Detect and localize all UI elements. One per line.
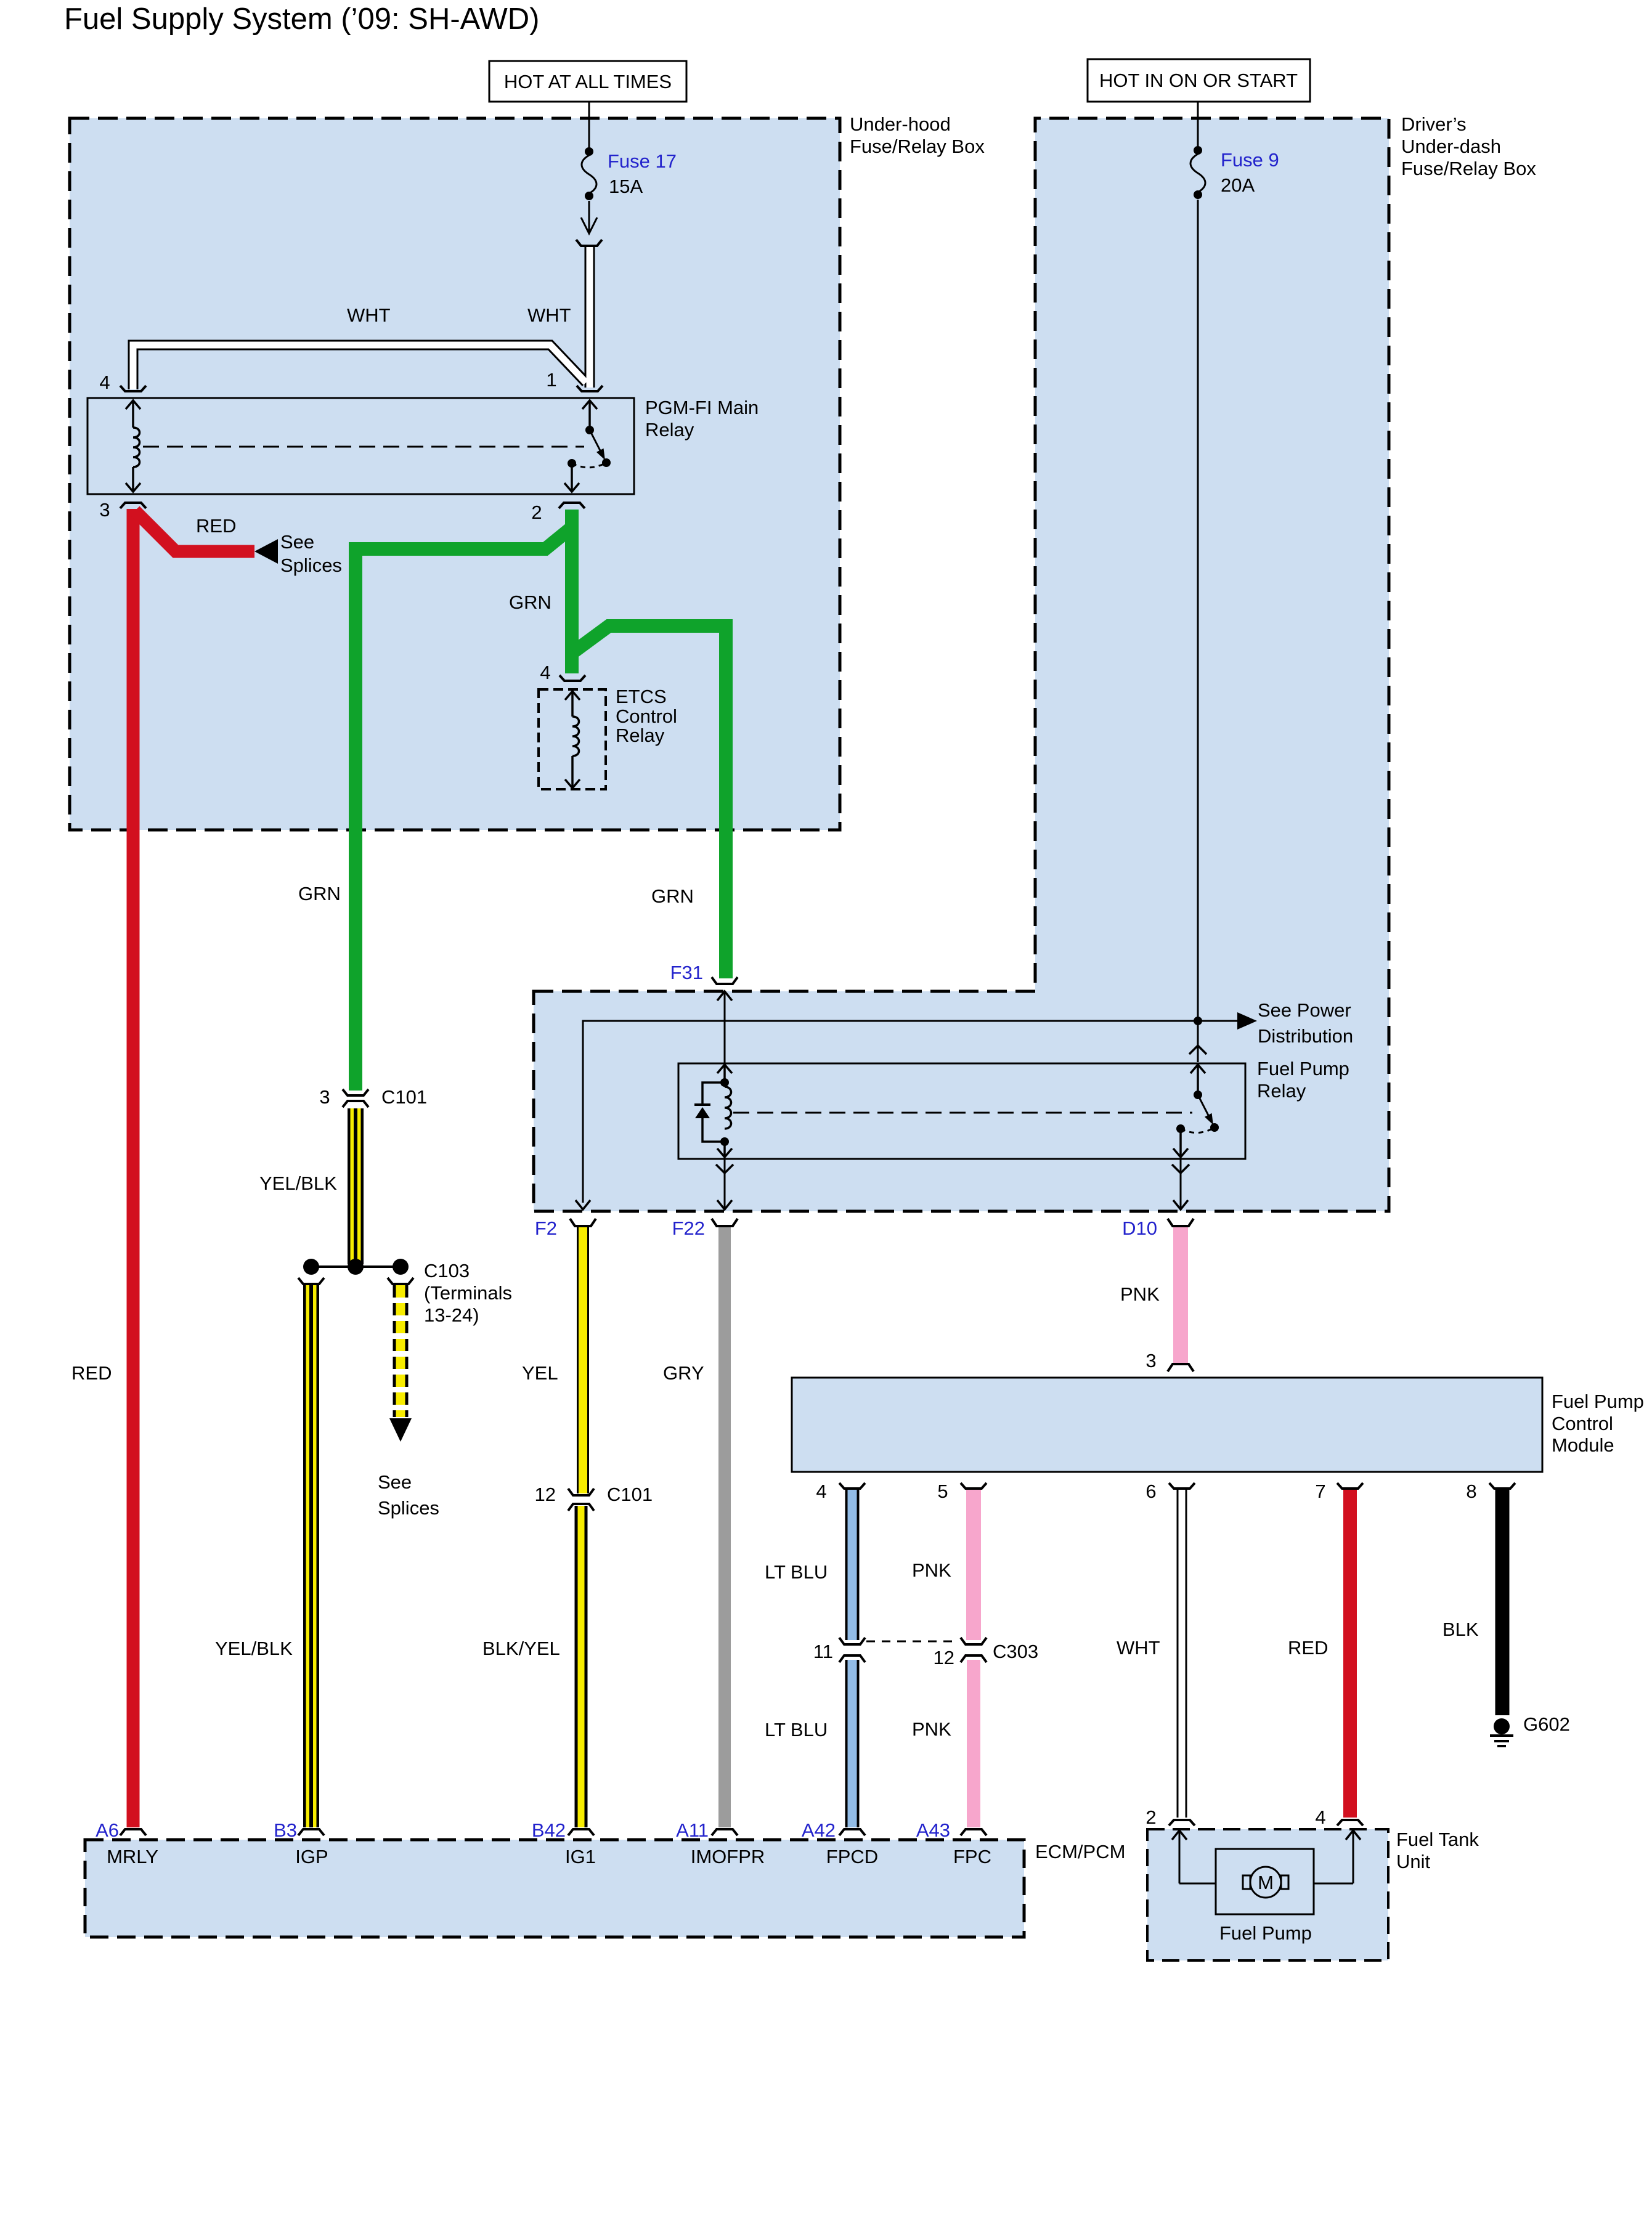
fuel pump relay dashed actuation line [733,1112,1192,1114]
connector FPCM pin 5 [961,1483,987,1489]
svg-text:GRY: GRY [663,1362,704,1384]
svg-text:Control: Control [1552,1413,1613,1434]
svg-text:1: 1 [546,369,556,391]
svg-text:See Power: See Power [1258,999,1351,1021]
svg-text:YEL/BLK: YEL/BLK [215,1638,293,1659]
connector C303 pin 11 [839,1638,865,1662]
relay K1 PGM-FI Main Relay box [87,398,634,494]
connector C103 left [298,1278,324,1284]
svg-text:Control: Control [616,705,677,727]
junction dot right [393,1259,409,1275]
svg-text:C101: C101 [381,1086,427,1108]
wire WHT vertical from fuse to pin 1 [133,247,590,389]
svg-text:12: 12 [535,1484,556,1505]
connector ECM pin A11 [712,1829,738,1835]
fuel tank unit dashed box [1147,1829,1388,1960]
connector fuel tank pin 2 [1169,1820,1195,1826]
connector D10 [1168,1219,1194,1226]
connector pin 3 [120,503,146,508]
connector C101 pin 12 [568,1489,594,1511]
wire coil output to F22 [716,1159,733,1209]
ETCS relay coil [565,691,580,788]
module U1 Fuel Pump Control Module [792,1378,1542,1472]
wire PNK lower to ECM A43 [967,1660,980,1827]
svg-text:2: 2 [531,502,542,523]
svg-text:C303: C303 [993,1641,1038,1662]
svg-text:7: 7 [1315,1481,1325,1502]
svg-text:Fuse 17: Fuse 17 [608,150,677,172]
svg-text:Driver’s: Driver’s [1401,113,1467,135]
connector ECM pin A6 [120,1829,146,1835]
wire GRN pin2 to C101 [356,510,572,1091]
svg-text:PNK: PNK [1120,1283,1160,1305]
connector ETCS pin 4 [559,675,585,681]
svg-text:B3: B3 [274,1819,297,1841]
connector fuel tank pin 4 [1337,1820,1363,1826]
svg-text:RED: RED [196,515,236,537]
connector pin 4 PGM-FI relay [120,386,146,391]
arrow to see power distribution [1237,1012,1257,1030]
arrow down at F2 [576,1200,590,1209]
svg-text:FPCD: FPCD [826,1846,878,1867]
svg-text:F2: F2 [535,1217,557,1239]
svg-text:Under-dash: Under-dash [1401,136,1501,157]
svg-text:Splices: Splices [280,554,342,576]
junction dot center [348,1259,364,1275]
svg-text:C103: C103 [424,1260,470,1282]
connector ECM pin A43 [961,1829,987,1835]
svg-text:6: 6 [1145,1481,1156,1502]
svg-text:Fuel Pump: Fuel Pump [1552,1391,1644,1412]
svg-text:2: 2 [1145,1806,1156,1828]
svg-text:ECM/PCM: ECM/PCM [1035,1841,1125,1863]
connector ECM pin B42 [568,1829,594,1835]
PGM-FI relay coil [126,400,140,492]
svg-text:F31: F31 [670,962,703,983]
node HOT AT ALL TIMES [489,61,686,102]
svg-text:4: 4 [816,1481,826,1502]
svg-text:11: 11 [813,1641,833,1662]
svg-text:20A: 20A [1221,174,1255,196]
svg-text:3: 3 [1145,1350,1156,1371]
wire GRN branch to F31 [574,626,726,978]
svg-text:Fuel Pump: Fuel Pump [1257,1058,1349,1079]
svg-text:YEL: YEL [522,1362,558,1384]
svg-text:8: 8 [1466,1481,1476,1502]
svg-text:Relay: Relay [616,725,665,746]
svg-text:IGP: IGP [295,1846,328,1867]
wire switch output to D10 [1172,1159,1189,1209]
junction dot fuse9 wire on horizontal [1194,1017,1202,1025]
svg-text:PNK: PNK [912,1718,951,1740]
svg-text:GRN: GRN [651,885,694,907]
svg-text:Module: Module [1552,1434,1614,1456]
svg-text:LT BLU: LT BLU [765,1719,828,1741]
wire WHT from FPCM pin 6 to fuel tank [1177,1490,1187,1818]
connector ECM pin B3 [298,1829,324,1835]
connector F31 [712,977,738,984]
relay K2 ETCS Control Relay dashed box [539,689,606,789]
PGM-FI relay switch [564,400,611,492]
fuel pump relay coil with diode [694,1065,732,1157]
connector FPCM pin 6 [1169,1483,1195,1489]
wire fuse 17 to white wire with arrow [581,201,597,234]
svg-text:15A: 15A [609,176,643,197]
svg-text:WHT: WHT [347,304,391,326]
connector top of WHT wire [576,240,602,246]
relay K3 Fuel Pump Relay box [678,1063,1245,1159]
svg-text:BLK: BLK [1442,1619,1479,1640]
arrow see splices down [389,1418,412,1442]
svg-text:D10: D10 [1122,1217,1157,1239]
PGM-FI relay dashed actuation line [143,446,584,448]
svg-text:Splices: Splices [378,1497,439,1519]
splice C103 junction bar [311,1265,401,1268]
wire LT BLU lower to ECM A42 [845,1660,860,1827]
svg-text:B42: B42 [532,1819,566,1841]
wire RED branch to See Splices [135,511,254,551]
wire thin from F2 corner to See Power Distribution arrow [583,1021,1240,1203]
wire GRN pin2 down to ETCS pin 4 [565,510,579,673]
wire RED from FPCM pin 7 to fuel tank [1343,1490,1357,1818]
svg-text:4: 4 [540,662,550,683]
svg-text:12: 12 [934,1647,954,1668]
svg-text:Distribution: Distribution [1258,1025,1353,1047]
dashed link C303 [866,1641,959,1643]
svg-text:Fuse/Relay Box: Fuse/Relay Box [1401,158,1536,179]
svg-text:Fuse/Relay Box: Fuse/Relay Box [850,136,985,157]
svg-text:GRN: GRN [298,883,341,904]
wire F31 down to relay coil [717,991,732,1063]
wire into tank from pin 2 [1172,1830,1247,1883]
svg-text:Fuel Supply System (’09: SH-AW: Fuel Supply System (’09: SH-AWD) [64,2,540,36]
svg-text:C101: C101 [607,1484,653,1505]
svg-text:MRLY: MRLY [107,1846,158,1867]
wire YEL/BLK from C101 to C103 [348,1108,364,1264]
svg-text:YEL/BLK: YEL/BLK [259,1172,337,1194]
svg-text:13-24): 13-24) [424,1304,479,1326]
module U2 ECM/PCM dashed box [85,1840,1024,1937]
svg-text:F22: F22 [672,1217,705,1239]
diode D1 [702,1083,725,1142]
wire from HOT IN ON OR START to fuse 9 [1197,102,1199,147]
svg-text:Fuse 9: Fuse 9 [1221,149,1279,171]
svg-text:IMOFPR: IMOFPR [691,1846,765,1867]
connector C103 right [388,1278,413,1284]
wire BLK/YEL from C101 to ECM B42 [575,1506,588,1827]
svg-text:BLK/YEL: BLK/YEL [482,1638,560,1659]
connector FPCM pin 7 [1337,1483,1363,1489]
connector pin 1 PGM-FI relay [577,386,603,391]
connector F2 [570,1219,596,1226]
node HOT IN ON OR START [1088,59,1310,102]
motor M1 fuel pump [1243,1867,1288,1898]
svg-text:RED: RED [71,1362,112,1384]
fuel pump inner box [1216,1849,1314,1914]
connector C303 pin 12 [961,1638,987,1662]
wire fuse 9 down to fuel pump relay switch [1197,200,1199,1062]
svg-text:See: See [280,531,314,553]
svg-text:5: 5 [937,1481,948,1502]
svg-text:Relay: Relay [645,419,694,441]
svg-text:Unit: Unit [1396,1851,1431,1872]
svg-text:PGM-FI Main: PGM-FI Main [645,397,759,418]
svg-text:GRN: GRN [509,591,551,613]
svg-text:See: See [378,1471,412,1493]
svg-text:Fuel Tank: Fuel Tank [1396,1829,1479,1850]
wire WHT horizontal to pin 4 [133,345,586,389]
svg-text:FPC: FPC [953,1846,991,1867]
svg-text:A43: A43 [916,1819,950,1841]
connector inline on fuse 9 wire [1189,1046,1206,1054]
connector ECM pin A42 [839,1829,865,1835]
svg-text:M: M [1258,1872,1274,1893]
wire YEL/BLK from C103 to ECM B3 [303,1285,319,1827]
wire PNK upper from FPCM pin 5 [966,1490,981,1640]
connector pin 2 [559,503,585,508]
svg-text:A42: A42 [802,1819,836,1841]
svg-text:HOT IN ON OR START: HOT IN ON OR START [1099,70,1298,91]
svg-text:A6: A6 [96,1819,119,1841]
svg-text:Fuel Pump: Fuel Pump [1219,1922,1312,1944]
svg-text:4: 4 [99,372,110,393]
svg-text:RED: RED [1288,1637,1328,1659]
svg-text:(Terminals: (Terminals [424,1282,512,1304]
connector FPCM pin 4 [839,1483,865,1489]
wire PNK from D10 to FPCM pin 3 [1173,1227,1188,1363]
svg-text:LT BLU: LT BLU [765,1561,828,1583]
wire BLK from FPCM pin 8 to ground [1495,1490,1510,1715]
svg-text:A11: A11 [676,1819,709,1841]
wire RED from pin 3 down to ECM A6 [127,509,140,1827]
connector C101 pin 3 [343,1089,368,1107]
svg-text:WHT: WHT [527,304,571,326]
wire into tank from pin 4 [1285,1830,1361,1883]
fuel pump relay switch [1173,1065,1219,1157]
connector F22 [712,1219,738,1226]
svg-text:WHT: WHT [1117,1637,1160,1659]
svg-text:4: 4 [1315,1806,1325,1828]
svg-text:Relay: Relay [1257,1080,1306,1102]
fuse F9 [1190,146,1205,199]
svg-text:PNK: PNK [912,1559,951,1581]
svg-text:3: 3 [319,1086,330,1108]
wire YEL/BLK dashed branch to splices [393,1285,409,1417]
under-hood fuse/relay box [70,118,840,830]
driver's under-dash fuse/relay box merged with fuel pump relay box [534,118,1389,1211]
svg-text:G602: G602 [1523,1713,1570,1735]
svg-text:HOT AT ALL TIMES: HOT AT ALL TIMES [504,71,672,92]
junction dot left [303,1259,319,1275]
svg-text:ETCS: ETCS [616,686,667,707]
fuse F17 [582,147,596,200]
arrow see splices (left-pointing) [254,539,278,564]
svg-text:Under-hood: Under-hood [850,113,951,135]
wire LT BLU upper from FPCM pin 4 [845,1490,860,1640]
svg-text:3: 3 [99,499,110,521]
connector FPCM pin 3 [1168,1364,1194,1371]
wire YEL from F2 to C101 [577,1227,589,1493]
svg-text:IG1: IG1 [565,1846,596,1867]
wire GRY from F22 to ECM A11 [718,1227,731,1827]
connector FPCM pin 8 [1489,1483,1515,1489]
ground G602 [1490,1718,1513,1746]
wire from HOT AT ALL TIMES to fuse 17 [588,102,590,148]
